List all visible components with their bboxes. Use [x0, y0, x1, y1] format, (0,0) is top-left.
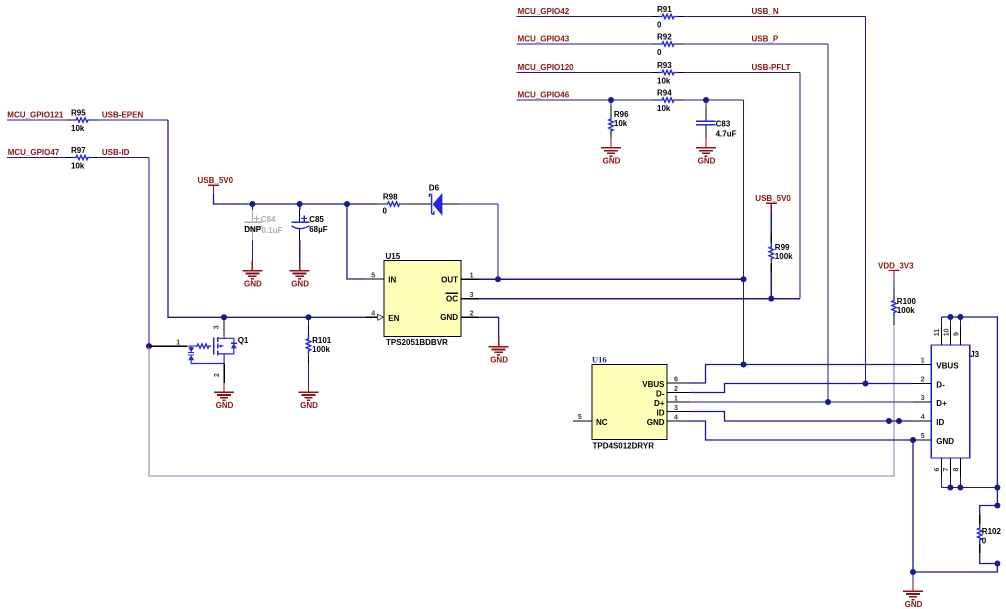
svg-text:R91: R91	[657, 5, 672, 14]
svg-text:GND: GND	[440, 313, 458, 322]
ground at x=252.4	[242, 261, 262, 288]
diode D6 (schottky, cathode left)	[429, 183, 459, 214]
svg-text:GND: GND	[647, 418, 665, 427]
junction dot C85	[297, 201, 303, 207]
U16 pin 1 D+ stub	[667, 401, 690, 403]
svg-text:R93: R93	[657, 61, 672, 70]
svg-text:GND: GND	[244, 279, 262, 288]
svg-text:8: 8	[953, 468, 960, 472]
junction dot C84	[249, 201, 255, 207]
svg-text:MCU_GPIO121: MCU_GPIO121	[7, 111, 64, 120]
svg-text:3: 3	[921, 395, 925, 402]
svg-text:2: 2	[674, 386, 678, 393]
svg-text:R102: R102	[982, 527, 1002, 536]
svg-text:TPD4S012DRYR: TPD4S012DRYR	[593, 442, 655, 451]
junction dot R102 bottom	[994, 561, 1000, 567]
ground at x=611	[601, 138, 621, 165]
svg-text:R96: R96	[614, 110, 629, 119]
svg-text:3: 3	[674, 405, 678, 412]
svg-text:GND: GND	[216, 401, 234, 410]
svg-text:R101: R101	[312, 336, 332, 345]
svg-text:R94: R94	[657, 88, 672, 97]
svg-text:NC: NC	[596, 418, 608, 427]
svg-text:R97: R97	[71, 146, 86, 155]
wire USB-EPEN vertical + EN run	[168, 120, 365, 317]
junction dot bottom gnd	[910, 569, 916, 575]
junction dot top pin10	[947, 314, 953, 320]
wire USB-ID vertical	[148, 158, 150, 347]
net MCU_GPIO121 / USB-EPEN wire	[7, 119, 66, 121]
U16 pin 2 D- stub	[667, 392, 690, 394]
svg-text:USB_5V0: USB_5V0	[755, 194, 791, 203]
svg-text:100k: 100k	[775, 252, 793, 261]
svg-text:4: 4	[371, 311, 375, 318]
power symbol USB_5V0 (left)	[198, 176, 234, 193]
svg-text:1: 1	[921, 358, 925, 365]
svg-text:10k: 10k	[657, 76, 671, 85]
wire shield ground run	[913, 440, 997, 572]
svg-text:5: 5	[371, 272, 375, 279]
wire vertical MCU_GPIO46 down at x=743.5	[743, 100, 745, 365]
svg-text:11: 11	[934, 329, 941, 337]
J3 top pin 10	[949, 317, 951, 327]
svg-text:100k: 100k	[897, 306, 915, 315]
wire USB_5V0 rail	[214, 193, 378, 204]
net MCU_GPIO46 wire	[517, 99, 653, 101]
wire OC net to USB-PFLT	[479, 298, 800, 300]
U15 pin 2 GND stub	[461, 316, 479, 318]
junction dot USB_P / D+	[825, 399, 831, 405]
svg-text:1: 1	[470, 272, 474, 279]
J3 bottom pin 8	[959, 458, 961, 477]
svg-text:R100: R100	[897, 297, 917, 306]
resistor R93 value 10k	[652, 72, 658, 74]
svg-text:R95: R95	[71, 108, 86, 117]
svg-text:ID: ID	[657, 408, 665, 417]
resistor R100 100k	[892, 279, 917, 326]
capacitor C85 68uF (polarized)	[291, 204, 327, 261]
U16 pin 4 GND stub	[667, 420, 690, 422]
svg-text:2: 2	[921, 377, 925, 384]
resistor R97 value 10k	[66, 157, 72, 159]
wire vertical MCU_GPIO43 down at x=828.0	[827, 44, 829, 402]
svg-text:MCU_GPIO43: MCU_GPIO43	[518, 35, 570, 44]
svg-text:D-: D-	[656, 389, 665, 398]
wire vertical MCU_GPIO120 down at x=800.0	[799, 73, 801, 299]
svg-text:USB_N: USB_N	[752, 7, 779, 16]
junction dot row D / R96	[608, 97, 614, 103]
resistor R98 0	[377, 192, 431, 215]
ground at x=224	[214, 383, 234, 410]
wire stub to bottom ground	[912, 572, 914, 582]
svg-text:GND: GND	[300, 401, 318, 410]
svg-text:USB-EPEN: USB-EPEN	[102, 111, 144, 120]
U15 pin 4 EN stub with input arrow	[365, 316, 384, 318]
net MCU_GPIO43 wire	[517, 43, 653, 45]
ground at x=706	[696, 138, 716, 165]
resistor R99 100k	[769, 211, 793, 298]
U15 pin 1 OUT stub	[461, 278, 479, 280]
J3 bottom pin 6	[940, 458, 942, 477]
op-amp U15 TPS2051BDBVR body	[384, 252, 461, 347]
svg-text:D6: D6	[429, 183, 440, 192]
svg-text:GND: GND	[905, 600, 923, 609]
svg-text:GND: GND	[291, 279, 309, 288]
svg-text:2: 2	[470, 311, 474, 318]
svg-text:DNP: DNP	[244, 225, 262, 234]
svg-text:0: 0	[657, 20, 662, 29]
svg-text:4.7uF: 4.7uF	[716, 130, 737, 139]
wire J3 bottom shield	[941, 487, 997, 489]
svg-text:0.1uF: 0.1uF	[262, 226, 283, 235]
resistor R92 value 0	[652, 43, 658, 45]
resistor R95 value 10k	[66, 119, 72, 121]
svg-text:TPS2051BDBVR: TPS2051BDBVR	[386, 338, 448, 347]
svg-text:USB-PFLT: USB-PFLT	[752, 63, 791, 72]
net MCU_GPIO47 / USB-ID wire	[7, 157, 66, 159]
U15 pin 5 IN stub	[365, 278, 384, 280]
svg-text:C83: C83	[716, 119, 731, 128]
U16 pin 6 VBUS stub	[667, 382, 690, 384]
capacitor C83 4.7uF	[696, 100, 737, 139]
svg-text:D+: D+	[654, 399, 665, 408]
svg-text:9: 9	[953, 332, 960, 336]
svg-text:3: 3	[213, 325, 220, 329]
svg-text:D-: D-	[936, 381, 945, 390]
svg-text:1: 1	[674, 395, 678, 402]
svg-text:R98: R98	[383, 192, 398, 201]
wire U16 VBUS to J3 pin1	[690, 365, 913, 384]
svg-text:GND: GND	[698, 157, 716, 166]
svg-text:7: 7	[943, 468, 950, 472]
J3 pin 4 stub	[913, 420, 931, 422]
svg-text:D+: D+	[936, 399, 947, 408]
Q1 pin 3 drain stub	[223, 318, 225, 337]
net MCU_GPIO42 wire	[517, 16, 653, 18]
svg-text:U16: U16	[592, 354, 607, 364]
U15 pin 3 OC stub	[461, 298, 479, 300]
junction dot row D / C83	[703, 97, 709, 103]
svg-text:10: 10	[943, 328, 950, 336]
connector J3 body	[931, 345, 979, 458]
junction dot bottom pin7	[947, 485, 953, 491]
junction dot R99/OC	[768, 296, 774, 302]
J3 pin 2 stub	[913, 383, 931, 385]
svg-text:R99: R99	[775, 243, 790, 252]
svg-text:6: 6	[674, 376, 678, 383]
junction dot USB-ID / Q1 gate	[146, 343, 152, 349]
junction dot D6/OUT	[495, 276, 501, 282]
U16 pin 5 NC stub	[573, 420, 592, 422]
svg-text:5: 5	[921, 433, 925, 440]
junction dot GND line / bottom vertical	[910, 437, 916, 443]
resistor R101 100k	[306, 317, 331, 382]
svg-text:C84: C84	[261, 215, 276, 224]
svg-text:5: 5	[578, 414, 582, 421]
svg-text:4: 4	[674, 414, 678, 421]
svg-text:10k: 10k	[71, 124, 85, 133]
svg-text:2: 2	[214, 373, 221, 377]
svg-text:U15: U15	[386, 252, 401, 261]
svg-text:100k: 100k	[312, 345, 330, 354]
junction dot EN / Q1 drain	[221, 314, 227, 320]
svg-text:6: 6	[934, 468, 941, 472]
resistor R94 value 10k	[652, 99, 658, 101]
wire USB-ID gray routing to J3 ID / R100	[149, 327, 894, 477]
wire vertical MCU_GPIO42 down at x=865.5	[865, 17, 867, 384]
svg-text:USB_P: USB_P	[752, 35, 779, 44]
svg-text:R92: R92	[657, 32, 672, 41]
J3 pin 5 stub	[913, 439, 931, 441]
svg-text:0: 0	[383, 207, 388, 216]
wire U16 ID to J3 pin4	[690, 412, 913, 422]
capacitor C84 DNP 0.1uF (gray)	[244, 204, 282, 261]
wire U16 D+ to J3 pin3	[690, 401, 913, 403]
junction dot VBUS line / MCU_GPIO46 vertical	[741, 362, 747, 368]
svg-text:MCU_GPIO46: MCU_GPIO46	[518, 91, 570, 100]
svg-text:GND: GND	[603, 157, 621, 166]
svg-text:10k: 10k	[71, 161, 85, 170]
junction dots R100/USB-ID at J3 ID line	[886, 418, 892, 424]
svg-text:USB-ID: USB-ID	[102, 148, 130, 157]
svg-text:10k: 10k	[614, 119, 628, 128]
wire IN branch to U15 pin5	[347, 204, 365, 279]
svg-text:4: 4	[921, 414, 925, 421]
svg-text:68µF: 68µF	[309, 225, 328, 234]
J3 pin 3 stub	[913, 401, 931, 403]
Q1 pin 2 source stub	[223, 364, 225, 384]
svg-text:OC: OC	[446, 295, 458, 304]
junction dot shield right rail	[994, 485, 1000, 491]
svg-text:0: 0	[657, 48, 662, 57]
net MCU_GPIO120 wire	[517, 72, 653, 74]
wire D6 output down to OUT	[497, 204, 499, 279]
ground at x=913	[903, 582, 923, 609]
U16 pin 3 ID stub	[667, 411, 690, 413]
junction dot bottom pin8	[957, 485, 963, 491]
svg-text:1: 1	[176, 339, 180, 346]
svg-text:MCU_GPIO120: MCU_GPIO120	[518, 63, 575, 72]
wire OUT net	[479, 278, 744, 280]
power symbol VDD_3V3	[878, 261, 914, 278]
J3 bottom pin 7	[949, 458, 951, 477]
J3 top pin 11	[940, 317, 942, 327]
svg-text:ID: ID	[936, 418, 944, 427]
op-amp U16 TPD4S012DRYR body	[592, 354, 667, 450]
J3 pin 1 stub	[913, 364, 931, 366]
svg-text:VDD_3V3: VDD_3V3	[878, 261, 914, 270]
wire J3 top shield	[941, 317, 997, 506]
junction dot IN branch	[344, 201, 350, 207]
wire U15 GND to ground	[479, 317, 499, 337]
wire U16 D- to J3 pin2	[690, 384, 913, 393]
junction dot top pin9	[957, 314, 963, 320]
svg-text:IN: IN	[388, 275, 396, 284]
svg-text:MCU_GPIO42: MCU_GPIO42	[518, 7, 570, 16]
svg-text:GND: GND	[490, 355, 508, 364]
junction dot USB_N / D-	[863, 381, 869, 387]
svg-text:C85: C85	[309, 215, 324, 224]
svg-text:GND: GND	[936, 437, 954, 446]
ground at x=299.6	[290, 261, 310, 288]
svg-text:Q1: Q1	[238, 336, 249, 345]
svg-text:EN: EN	[388, 314, 399, 323]
junction dot R102 top	[994, 503, 1000, 509]
svg-text:MCU_GPIO47: MCU_GPIO47	[8, 148, 60, 157]
svg-text:VBUS: VBUS	[642, 380, 665, 389]
svg-text:3: 3	[470, 292, 474, 299]
svg-text:10k: 10k	[657, 104, 671, 113]
svg-text:J3: J3	[970, 350, 979, 359]
transistor Q1 (P-MOSFET with gate resistor and zeners)	[149, 336, 249, 364]
power symbol USB_5V0 (right)	[755, 194, 791, 211]
junction dot OUT / MCU_GPIO46 vertical	[741, 276, 747, 282]
svg-text:VBUS: VBUS	[936, 362, 959, 371]
ground at x=308.5	[299, 383, 319, 410]
svg-text:OUT: OUT	[441, 275, 458, 284]
resistor R96 10k vertical	[609, 100, 629, 144]
J3 top pin 9	[959, 317, 961, 327]
ground at x=498.6	[489, 337, 509, 364]
junction dot EN / R101	[306, 314, 312, 320]
wire U16 GND to J3 pin5	[690, 421, 913, 440]
resistor R91 value 0	[652, 16, 658, 18]
svg-text:0: 0	[982, 537, 987, 546]
svg-text:USB_5V0: USB_5V0	[198, 176, 234, 185]
resistor R102 0 (shield to gnd)	[978, 506, 1002, 564]
